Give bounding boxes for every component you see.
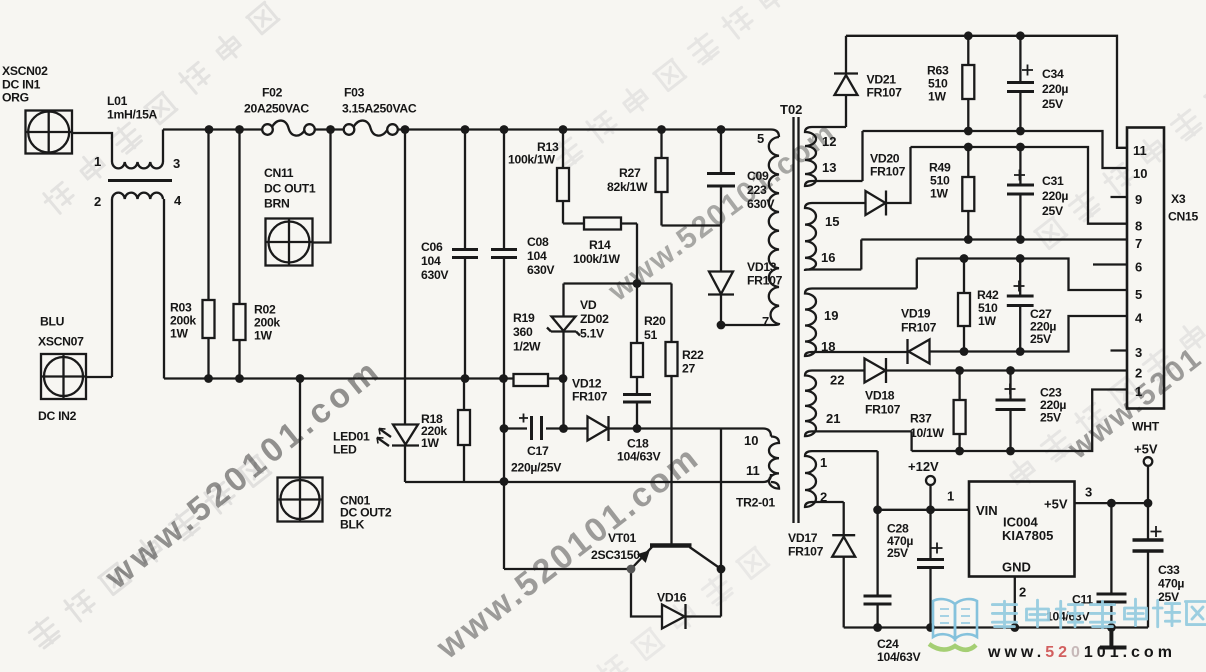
wire GND pin2 (1014, 577, 1016, 628)
node C17 right (559, 424, 568, 433)
wire CN11 drop (313, 130, 331, 243)
label R02 value (254, 303, 280, 343)
svg-text:223: 223 (747, 183, 767, 197)
transformer T02 winding 15-16 (805, 203, 865, 270)
svg-text:20A250VAC: 20A250VAC (244, 102, 309, 116)
svg-text:104/63V: 104/63V (617, 450, 661, 464)
svg-text:18: 18 (821, 339, 835, 354)
diode VD13 FR107 (708, 226, 734, 326)
node bottom rail x465 (461, 374, 470, 383)
node rail35 R63 (964, 31, 973, 40)
wire 13V rail to X3 pin10 (863, 131, 1128, 168)
label C18 value (617, 437, 661, 464)
svg-text:200k: 200k (170, 314, 196, 328)
svg-text:VD12: VD12 (572, 377, 602, 391)
diode VD19 FR107 (cathode left) (908, 316, 1128, 364)
label R49 value (929, 161, 951, 201)
label C27 value (1030, 307, 1056, 346)
label VD12 (572, 377, 608, 404)
node rail370 C23 (1006, 366, 1015, 375)
IC U IC004 KIA7805 (969, 482, 1075, 577)
capacitor C23 electrolytic (996, 371, 1026, 452)
resistor R19 (514, 374, 549, 386)
stub X3 pin3 (1111, 349, 1128, 351)
label VD21 (867, 73, 903, 100)
diode VD12 FR107 (564, 416, 772, 441)
svg-text:10: 10 (1133, 166, 1147, 181)
capacitor C34 electrolytic (1007, 36, 1034, 131)
node rail370 R37 (955, 366, 964, 375)
SECTION-MID (721, 117, 917, 535)
label VD20 (870, 152, 906, 179)
capacitor C18 (623, 395, 651, 429)
label XSCN02 (2, 64, 48, 105)
svg-text:27: 27 (682, 362, 695, 376)
svg-text:22: 22 (830, 373, 844, 388)
svg-text:C33: C33 (1158, 563, 1180, 577)
watermark CJK run top-center (550, 0, 787, 170)
svg-text:104: 104 (527, 249, 547, 263)
node rail35 C34 (1016, 31, 1025, 40)
svg-text:7: 7 (1135, 236, 1142, 251)
svg-text:25V: 25V (1042, 97, 1064, 111)
wire LED/R18 bottom to TR2 pin11 (405, 474, 771, 482)
svg-text:1: 1 (820, 455, 827, 470)
resistor R03 (203, 130, 215, 379)
svg-text:R42: R42 (977, 288, 999, 302)
fuse F03 (344, 121, 398, 136)
label C09 value (747, 169, 775, 211)
svg-text:16: 16 (821, 250, 835, 265)
wire bottom rail (164, 377, 563, 379)
node C17 left (500, 424, 509, 433)
resistor R14 (563, 218, 637, 230)
wire C17 left vertical to emitter rail (503, 379, 505, 570)
svg-text:2: 2 (1135, 366, 1142, 381)
node rail147 R49 (964, 143, 973, 152)
capacitor C27 electrolytic (1007, 259, 1034, 352)
node rail451 C23 (1006, 447, 1015, 456)
svg-text:C06: C06 (421, 240, 443, 254)
svg-text:1W: 1W (254, 329, 272, 343)
svg-text:104: 104 (421, 254, 441, 268)
svg-text:R03: R03 (170, 301, 192, 315)
svg-text:R37: R37 (910, 412, 932, 426)
svg-text:XSCN07: XSCN07 (38, 335, 84, 349)
svg-text:1: 1 (1135, 384, 1142, 399)
node top rail x239 (235, 125, 244, 134)
svg-text:1W: 1W (421, 436, 439, 450)
node bottom rail x300 (296, 374, 305, 383)
svg-text:5.1V: 5.1V (580, 327, 605, 341)
label R42 value (977, 288, 999, 328)
capacitor C06 (452, 130, 478, 379)
svg-text:VD: VD (580, 298, 597, 312)
terminal +5V (1144, 457, 1153, 503)
svg-text:25V: 25V (1040, 411, 1062, 425)
svg-text:3.15A250VAC: 3.15A250VAC (342, 102, 417, 116)
label R14 value (573, 238, 620, 266)
wire R14 to node (636, 224, 638, 284)
transformer T02 core (794, 117, 799, 523)
svg-text:13: 13 (822, 160, 836, 175)
svg-text:F03: F03 (344, 86, 365, 100)
svg-text:470µ: 470µ (1158, 577, 1184, 591)
svg-text:KIA7805: KIA7805 (1002, 528, 1053, 543)
node top rail x661 (657, 125, 666, 134)
node bottom rail x562 (559, 374, 568, 383)
node bottom rail x208 (204, 374, 213, 383)
svg-text:11: 11 (746, 463, 760, 478)
connector CN11 (DC OUT1) (266, 219, 313, 266)
wire pin21 rail to X3 pin1 (912, 390, 1127, 452)
svg-text:25V: 25V (887, 546, 909, 560)
svg-text:FR107: FR107 (901, 321, 937, 335)
node rail451 R37 (955, 447, 964, 456)
svg-text:LED: LED (333, 443, 357, 457)
svg-text:R19: R19 (513, 311, 535, 325)
svg-text:GND: GND (1002, 560, 1031, 575)
node top rail x563 (559, 125, 568, 134)
svg-text:VD21: VD21 (867, 73, 897, 87)
label VD17 (788, 531, 824, 559)
wire ground rail bottom (844, 626, 1148, 628)
svg-text:82k/1W: 82k/1W (607, 180, 648, 194)
node rail351 C27 (1016, 347, 1025, 356)
svg-text:C08: C08 (527, 235, 549, 249)
label C31 value (1042, 174, 1068, 218)
node bottom rail x503 (499, 374, 508, 383)
wire +12V feed to VIN (878, 509, 969, 511)
svg-text:360: 360 (513, 325, 533, 339)
wire zener node to C17 node (562, 379, 564, 429)
svg-text:510: 510 (930, 174, 950, 188)
svg-text:630V: 630V (527, 263, 555, 277)
resistor R22 (666, 284, 678, 546)
label IC004 pins and text (947, 485, 1092, 600)
inductor L01 common-mode choke (108, 162, 172, 199)
label C06 value (421, 240, 449, 282)
svg-text:510: 510 (928, 77, 948, 91)
svg-text:C09: C09 (747, 169, 769, 183)
wire R27 bottom to C09 (662, 224, 722, 226)
wire L01 pin2 drop to BLU wire (111, 199, 113, 377)
label R63 value (927, 64, 949, 104)
terminal +12V (926, 476, 935, 510)
label R13 value (508, 140, 559, 167)
svg-text:1: 1 (94, 154, 101, 169)
wire L01 pin3 riser to top rail (162, 130, 164, 163)
svg-text:2: 2 (820, 490, 827, 505)
svg-text:R27: R27 (619, 166, 641, 180)
wire VD21 output top rail (846, 36, 1127, 148)
diode VD20 FR107 (866, 147, 911, 216)
svg-text:5: 5 (757, 131, 764, 146)
svg-text:25V: 25V (1158, 590, 1180, 604)
label C34 value (1042, 67, 1068, 111)
svg-text:C17: C17 (527, 444, 549, 458)
svg-text:100k/1W: 100k/1W (508, 153, 555, 167)
label L01 value (107, 94, 158, 122)
wire node283 horizontal (564, 282, 672, 284)
diode VD16 (631, 569, 721, 629)
resistor R02 (234, 130, 246, 379)
capacitor C33 electrolytic (1133, 503, 1164, 627)
node rail351 R42 (960, 347, 969, 356)
connector XSCN02 (DC IN1) (26, 111, 73, 154)
label C23 value (1040, 386, 1066, 425)
node R14 junction (633, 279, 642, 288)
SECTION-LEFT (504, 130, 771, 630)
transformer T02 primary winding 5-7 (721, 137, 779, 325)
svg-text:CN11: CN11 (264, 166, 294, 180)
svg-text:3: 3 (173, 156, 180, 171)
svg-text:4: 4 (174, 193, 182, 208)
wire XSCN07 to L01 pin2 (86, 376, 112, 378)
svg-text:1W: 1W (930, 187, 948, 201)
wire L01 pin4 drop to bottom rail (163, 199, 165, 379)
svg-text:www.520101.com: www.520101.com (97, 351, 389, 597)
svg-text:C18: C18 (627, 437, 649, 451)
LED LED01 (377, 425, 419, 447)
label VD13 (747, 260, 783, 288)
svg-text:9: 9 (1135, 192, 1142, 207)
svg-text:www.520101.com: www.520101.com (987, 644, 1176, 661)
connector CN01 (DC OUT2) (278, 478, 323, 522)
svg-text:4: 4 (1135, 311, 1143, 326)
svg-text:2: 2 (1019, 585, 1026, 600)
resistor R49 (962, 147, 974, 240)
svg-text:6: 6 (1135, 260, 1142, 275)
svg-text:BLK: BLK (340, 518, 365, 532)
label X3 CN15 (1132, 192, 1198, 434)
svg-text:C24: C24 (877, 637, 899, 651)
svg-text:L01: L01 (107, 94, 128, 108)
resistor R42 (958, 259, 970, 352)
label C08 value (527, 235, 555, 277)
svg-text:ORG: ORG (2, 91, 29, 105)
svg-text:BRN: BRN (264, 197, 290, 211)
label F02 value (244, 86, 309, 116)
svg-text:2: 2 (94, 194, 101, 209)
svg-text:DC IN2: DC IN2 (38, 409, 77, 423)
label CN11 (264, 166, 316, 211)
ground symbol (1100, 628, 1127, 648)
svg-text:C31: C31 (1042, 174, 1064, 188)
node rail131 R63 (964, 127, 973, 136)
svg-text:+5V: +5V (1134, 442, 1158, 457)
svg-text:R02: R02 (254, 303, 276, 317)
label R18 value (421, 412, 447, 450)
wire VD20 output rail to X3 pin8 (911, 147, 1128, 224)
svg-text:XSCN02: XSCN02 (2, 64, 48, 78)
svg-text:+12V: +12V (908, 459, 939, 474)
svg-text:VD20: VD20 (870, 152, 900, 166)
label R27 value (607, 166, 648, 194)
svg-text:7: 7 (762, 314, 769, 329)
label R37 value (910, 412, 945, 441)
transistor VT01 2SC3150 (631, 429, 721, 617)
label R03 value (170, 301, 196, 341)
svg-text:1mH/15A: 1mH/15A (107, 108, 158, 122)
svg-text:TR2-01: TR2-01 (736, 496, 775, 510)
svg-text:220µ: 220µ (1042, 189, 1068, 203)
svg-text:FR107: FR107 (788, 545, 824, 559)
svg-text:25V: 25V (1030, 332, 1052, 346)
logo CJK text (992, 599, 1206, 628)
node wire5V C33 (1144, 499, 1153, 508)
label VD19 (901, 307, 937, 335)
svg-text:630V: 630V (421, 268, 449, 282)
node top rail x504 (500, 125, 509, 134)
wire LED01 string vertical (404, 130, 406, 483)
svg-text:www.520101.com: www.520101.com (429, 438, 707, 667)
svg-text:FR107: FR107 (865, 403, 901, 417)
transformer T02 winding 22-21 (805, 371, 912, 452)
node wire5V C11 (1107, 499, 1116, 508)
svg-text:10: 10 (744, 433, 758, 448)
junction dots right (873, 31, 1152, 631)
label F03 value (342, 86, 417, 116)
svg-text:2SC3150: 2SC3150 (591, 548, 640, 562)
stub X3 pin9 (1111, 196, 1128, 198)
svg-text:8: 8 (1135, 219, 1142, 234)
wire CN01 drop (299, 379, 301, 478)
transformer TR2 winding 10-11 (769, 437, 779, 489)
wire VD19 output rail to X3 pin5 (917, 259, 1127, 291)
node C18 bottom (633, 424, 642, 433)
svg-text:R22: R22 (682, 348, 704, 362)
svg-text:104/63V: 104/63V (877, 650, 921, 664)
node top rail x209 (205, 125, 214, 134)
fuse F02 (262, 121, 315, 136)
svg-text:FR107: FR107 (870, 165, 906, 179)
label R20 value (644, 314, 666, 342)
label X3 pin numbers (1133, 143, 1147, 399)
label BLU XSCN07 (38, 315, 84, 424)
svg-text:R63: R63 (927, 64, 949, 78)
wire pin16 rail to X3 pin7 (861, 238, 1127, 240)
svg-text:200k: 200k (254, 316, 280, 330)
node top rail x721 (717, 125, 726, 134)
svg-text:LED01: LED01 (333, 430, 370, 444)
svg-text:1/2W: 1/2W (513, 340, 541, 354)
node gnd C24 (873, 623, 882, 632)
node gnd C11 (1107, 623, 1116, 632)
junction dots left/mid (204, 125, 725, 573)
svg-text:F02: F02 (262, 86, 283, 100)
resistor R27 (656, 130, 668, 226)
label R19 value (513, 311, 541, 354)
node gnd C28 (926, 623, 935, 632)
label ZD02 value (580, 298, 609, 341)
label VT01 (591, 531, 640, 562)
watermark CJK run right-mid (1006, 320, 1206, 488)
diode VD17 FR107 (832, 535, 855, 627)
svg-text:C34: C34 (1042, 67, 1064, 81)
stub X3 pin6 (1093, 263, 1127, 265)
label C28 value (887, 522, 913, 561)
transformer T02 winding 12-13 (805, 127, 863, 186)
diode VD21 FR107 (834, 36, 858, 127)
node top rail x405 (401, 125, 410, 134)
svg-text:VT01: VT01 (608, 531, 636, 545)
node y482 (500, 477, 509, 486)
connector XSCN07 (DC IN2 BLU) (41, 354, 86, 399)
capacitor C31 electrolytic (1007, 147, 1034, 240)
svg-text:FR107: FR107 (747, 274, 783, 288)
node top rail x330 (326, 125, 335, 134)
capacitor C08 (491, 130, 517, 379)
watermark CJK run bottom-left (27, 455, 271, 650)
svg-text:ZD02: ZD02 (580, 312, 609, 326)
svg-text:R14: R14 (589, 238, 611, 252)
node rail131 C34 (1016, 127, 1025, 136)
svg-text:21: 21 (826, 411, 840, 426)
zener diode ZD02 (547, 284, 580, 379)
node rail239 C31 (1016, 235, 1025, 244)
svg-text:CN15: CN15 (1168, 210, 1198, 224)
connector X3 CN15 (1127, 128, 1164, 409)
svg-text:DC OUT1: DC OUT1 (264, 182, 316, 196)
svg-text:BLU: BLU (40, 315, 65, 329)
node wire12V C24 (873, 505, 882, 514)
resistor R18 (458, 379, 470, 483)
svg-text:3: 3 (1085, 485, 1092, 500)
label R22 value (682, 348, 704, 376)
label VD18 (865, 389, 901, 417)
label C17 value (511, 444, 562, 475)
SECTION-TRANSFORMER (832, 36, 1164, 648)
node VT01 collector (717, 565, 726, 574)
node VT01 emitter (627, 565, 636, 574)
node bottom rail x239 (235, 374, 244, 383)
label C24 value (877, 637, 921, 664)
svg-text:R49: R49 (929, 161, 951, 175)
node T02 pin7 (717, 321, 726, 330)
svg-text:VIN: VIN (976, 503, 998, 518)
svg-text:11: 11 (1133, 143, 1147, 158)
capacitor C11 (1097, 503, 1127, 627)
svg-text:WHT: WHT (1132, 420, 1160, 434)
resistor R13 (557, 130, 569, 224)
node top rail x465 (461, 125, 470, 134)
svg-text:19: 19 (824, 308, 838, 323)
svg-text:1W: 1W (170, 327, 188, 341)
resistor R20 (631, 284, 643, 395)
wire XSCN02 to L01 pin1 (72, 133, 112, 162)
svg-text:+5V: +5V (1044, 497, 1068, 512)
svg-text:R20: R20 (644, 314, 666, 328)
resistor R37 (954, 371, 966, 452)
label LED01 (333, 430, 370, 457)
svg-text:1: 1 (947, 489, 954, 504)
watermark CJK run top-left (41, 2, 280, 216)
node rail258 C27 (1016, 254, 1025, 263)
svg-text:1W: 1W (978, 314, 996, 328)
label CN01 (340, 494, 392, 532)
svg-text:VD19: VD19 (901, 307, 931, 321)
svg-text:1W: 1W (928, 90, 946, 104)
svg-text:510: 510 (978, 301, 998, 315)
diode VD18 FR107 (865, 358, 1128, 383)
node wire12V C28 (926, 505, 935, 514)
wire emitter feed (504, 568, 631, 570)
svg-text:FR107: FR107 (572, 390, 608, 404)
svg-text:220µ: 220µ (1042, 82, 1068, 96)
svg-text:5: 5 (1135, 287, 1142, 302)
svg-text:T02: T02 (780, 102, 802, 117)
